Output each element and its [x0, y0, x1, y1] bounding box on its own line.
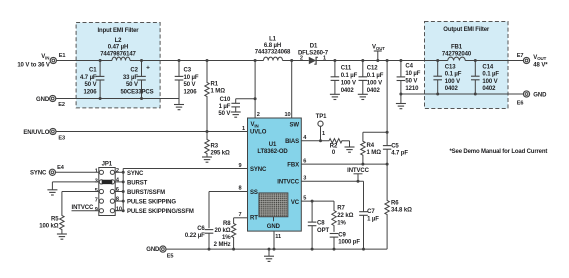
capacitor C12 [362, 61, 364, 77]
ground below C10 [231, 111, 241, 113]
svg-text:0.1 µF: 0.1 µF [341, 73, 358, 79]
node drop to bar [386, 131, 389, 134]
svg-text:+: + [146, 65, 150, 72]
capacitor C10 [236, 98, 255, 100]
wire VOUT rail [335, 60, 448, 62]
svg-text:74479876147: 74479876147 [100, 51, 136, 57]
node C8 tap [311, 200, 314, 203]
svg-text:R1: R1 [211, 82, 219, 88]
node C12 [361, 59, 364, 62]
svg-text:48 V*: 48 V* [533, 63, 548, 69]
ground below R5 [57, 233, 67, 235]
svg-text:0402: 0402 [445, 86, 459, 92]
wire EN/UVLO to pin1 [56, 131, 247, 133]
svg-text:6: 6 [116, 187, 119, 193]
wire FB1 to C14 [465, 60, 523, 62]
svg-text:C9: C9 [338, 233, 346, 239]
resistor R1 [205, 61, 209, 132]
resistor R6 [385, 164, 389, 249]
svg-text:10: 10 [284, 112, 290, 118]
svg-text:C7: C7 [367, 209, 375, 215]
svg-text:0402: 0402 [341, 88, 355, 94]
node divider drop [386, 59, 389, 62]
svg-text:50 V: 50 V [218, 111, 230, 117]
node C14 top [474, 59, 477, 62]
inductor L1 [264, 57, 283, 60]
svg-text:20 kΩ: 20 kΩ [215, 228, 231, 234]
svg-text:1206: 1206 [84, 89, 98, 95]
terminal E4 SYNC [49, 169, 55, 175]
svg-text:VC: VC [291, 200, 300, 206]
svg-text:C8: C8 [317, 221, 325, 227]
wire output gnd rail [401, 93, 523, 95]
svg-text:0.1 µF: 0.1 µF [367, 73, 384, 79]
node C1 top [99, 59, 102, 62]
svg-text:2: 2 [257, 112, 260, 118]
resistor R7 [332, 201, 336, 232]
ferrite bead FB1 [448, 57, 465, 60]
wire FBX [301, 163, 363, 165]
node TP1 BIAS [319, 139, 322, 142]
wire JP1 pin9 INTVCC stub [72, 210, 100, 212]
terminal E1 VIN [50, 57, 56, 63]
svg-text:1%: 1% [337, 221, 346, 227]
svg-text:8: 8 [116, 197, 119, 203]
svg-text:100 V: 100 V [367, 81, 382, 87]
svg-text:E3: E3 [58, 135, 65, 141]
capacitor C1 [99, 61, 101, 77]
svg-text:50 V: 50 V [405, 78, 417, 84]
svg-text:PULSE SKIPPING/SSFM: PULSE SKIPPING/SSFM [127, 209, 194, 215]
capacitor C3 [178, 59, 181, 62]
top bar R4 C5 [363, 131, 387, 133]
svg-text:RT: RT [250, 215, 258, 221]
svg-text:33 µF: 33 µF [123, 75, 138, 81]
svg-text:E5: E5 [167, 254, 174, 260]
node C6 bottom [208, 248, 211, 251]
capacitor C4 [400, 61, 402, 77]
svg-text:R3: R3 [211, 143, 219, 149]
output EMI filter box [425, 22, 509, 109]
svg-text:SYNC: SYNC [250, 167, 267, 173]
svg-text:1: 1 [242, 126, 245, 132]
svg-text:E7: E7 [517, 53, 524, 59]
resistor R4 [361, 132, 365, 164]
svg-text:SYNC: SYNC [30, 171, 47, 177]
svg-text:JP1: JP1 [102, 162, 113, 168]
svg-text:INTVCC: INTVCC [347, 168, 370, 174]
wire VIN rail [56, 60, 112, 62]
test point TP1 [318, 121, 323, 126]
wire VC [301, 200, 334, 202]
capacitor C9 [330, 233, 339, 235]
svg-text:Output EMI Filter: Output EMI Filter [443, 27, 490, 33]
wire BIAS [301, 140, 327, 142]
svg-text:100 V: 100 V [482, 79, 497, 85]
JP1 pin pair row 4 [99, 199, 103, 203]
node C2 top [140, 59, 143, 62]
svg-text:R8: R8 [223, 221, 231, 227]
svg-text:R2: R2 [330, 144, 338, 150]
svg-text:SYNC: SYNC [127, 171, 144, 177]
capacitor C14 [474, 61, 476, 77]
svg-text:1: 1 [322, 131, 325, 137]
svg-text:SS: SS [250, 190, 258, 196]
svg-text:7: 7 [95, 198, 98, 204]
svg-text:C14: C14 [482, 64, 493, 70]
wire VIN rail 2 [130, 60, 264, 62]
node R3 top [206, 130, 209, 133]
svg-text:2: 2 [300, 56, 303, 62]
svg-text:R4: R4 [367, 143, 375, 149]
svg-text:BIAS: BIAS [285, 139, 299, 145]
wire VIN pin2 [254, 61, 256, 119]
ground below C11 [330, 93, 340, 95]
svg-text:1210: 1210 [405, 86, 419, 92]
svg-text:E4: E4 [57, 165, 65, 171]
ground below C4 [400, 94, 402, 104]
svg-text:INTVCC: INTVCC [72, 205, 95, 211]
wire JP1 pin3 to gnd [52, 181, 99, 183]
svg-text:6: 6 [303, 158, 306, 164]
wire SS to C6 [209, 191, 248, 193]
svg-text:L2: L2 [115, 38, 123, 44]
svg-text:9: 9 [95, 207, 98, 213]
svg-text:C13: C13 [445, 64, 456, 70]
terminal E7 VOUT [523, 57, 529, 63]
svg-text:5: 5 [303, 196, 306, 202]
svg-text:C1: C1 [89, 68, 97, 74]
svg-text:50CE33PCS: 50CE33PCS [120, 89, 153, 95]
svg-text:TP1: TP1 [316, 114, 327, 120]
ground below C12 [358, 93, 368, 95]
wire coil to SW node [283, 60, 309, 62]
svg-text:1: 1 [323, 56, 326, 62]
svg-text:E6: E6 [517, 100, 524, 106]
svg-text:1 MΩ: 1 MΩ [367, 150, 382, 156]
svg-text:C5: C5 [391, 143, 399, 149]
svg-text:100 kΩ: 100 kΩ [39, 223, 59, 229]
wire JP1 pin5 to R5 [62, 191, 99, 193]
svg-text:E1: E1 [59, 53, 66, 59]
svg-text:50 V: 50 V [126, 82, 138, 88]
resistor R5 [60, 211, 64, 235]
svg-text:L1: L1 [269, 36, 277, 42]
JP1 bus to SYNC pin [122, 169, 124, 211]
svg-text:1 µF: 1 µF [219, 104, 231, 110]
node C9 bottom [333, 248, 336, 251]
svg-text:50 V: 50 V [184, 82, 196, 88]
node C4 [399, 59, 402, 62]
wire E4 to JP1 pin1 [56, 171, 100, 173]
ground at IC gnd [268, 248, 271, 251]
svg-text:EN/UVLO: EN/UVLO [23, 130, 49, 136]
svg-text:C4: C4 [405, 63, 413, 69]
op IC U1 LT8362-OD body [248, 118, 302, 231]
terminal E6 GND [523, 91, 529, 97]
wire bottom gnd rail [166, 248, 387, 250]
svg-text:C10: C10 [220, 97, 231, 103]
svg-text:GND: GND [36, 97, 50, 103]
svg-text:0.47 µH: 0.47 µH [108, 45, 128, 51]
node VIN pin2 drop [254, 59, 257, 62]
svg-text:VOUT: VOUT [533, 55, 546, 61]
svg-text:1000 pF: 1000 pF [338, 240, 360, 246]
connector JP1 body [99, 168, 115, 216]
svg-text:0.1 µF: 0.1 µF [445, 72, 462, 78]
node C1 bottom [99, 97, 102, 100]
terminal E3 EN/UVLO [50, 128, 56, 134]
svg-text:34.8 kΩ: 34.8 kΩ [391, 208, 412, 214]
svg-text:R5: R5 [51, 216, 59, 222]
svg-text:7: 7 [238, 212, 241, 218]
terminal E5 GND [160, 246, 166, 252]
resistor R8 [231, 222, 235, 250]
wire R2 to gnd [344, 140, 350, 142]
svg-text:BURST: BURST [127, 180, 148, 186]
svg-text:5: 5 [95, 188, 98, 194]
svg-text:INTVCC: INTVCC [277, 180, 300, 186]
ground below R3 [202, 156, 212, 158]
svg-text:1 µF: 1 µF [367, 216, 379, 222]
svg-text:0402: 0402 [367, 88, 381, 94]
capacitor C5 [386, 132, 388, 145]
wire GND rail [56, 98, 179, 100]
svg-text:3: 3 [95, 178, 98, 184]
svg-text:VIN: VIN [41, 54, 49, 60]
ground below C3 [178, 99, 180, 105]
svg-text:0402: 0402 [482, 86, 496, 92]
svg-text:2 MHz: 2 MHz [214, 242, 231, 248]
svg-text:10 V to 36 V: 10 V to 36 V [17, 62, 50, 68]
capacitor C8 OPT [311, 201, 313, 222]
resistor R3 [205, 132, 209, 158]
svg-text:C11: C11 [341, 66, 352, 72]
svg-text:9: 9 [238, 163, 241, 169]
svg-text:U1: U1 [269, 142, 277, 148]
node C7 bottom [362, 248, 365, 251]
svg-text:0.1 µF: 0.1 µF [482, 72, 499, 78]
svg-text:FBX: FBX [287, 162, 299, 168]
svg-text:1 MΩ: 1 MΩ [211, 89, 226, 95]
svg-text:100 V: 100 V [341, 81, 356, 87]
svg-text:GND: GND [146, 247, 160, 253]
capacitor C11 [334, 61, 336, 77]
ground JP1 pin3 [47, 189, 57, 191]
JP1 pin pair row 1 [99, 170, 103, 174]
svg-text:LT8362-OD: LT8362-OD [257, 149, 288, 155]
resistor R2 [328, 139, 344, 143]
svg-text:2: 2 [116, 168, 119, 174]
svg-text:1206: 1206 [184, 89, 198, 95]
bottom bar FBX node [363, 163, 387, 165]
capacitor C7 [363, 181, 365, 211]
svg-text:E2: E2 [58, 102, 65, 108]
svg-text:C3: C3 [184, 68, 192, 74]
capacitor C2 polarized [141, 61, 143, 77]
ground after R2 [345, 146, 355, 148]
diode D1 DFLS260-7 [309, 57, 316, 65]
capacitor C6 [205, 229, 214, 231]
node C2 bottom [140, 97, 143, 100]
svg-text:4.7 pF: 4.7 pF [391, 150, 408, 156]
svg-text:1: 1 [95, 169, 98, 175]
wire SW pin10 [291, 61, 293, 119]
svg-text:0.22 µF: 0.22 µF [185, 233, 205, 239]
svg-text:OPT: OPT [317, 228, 329, 234]
svg-text:4.7 µF: 4.7 µF [80, 75, 97, 81]
svg-text:11: 11 [275, 234, 281, 240]
wire divider drop [386, 61, 388, 133]
node R8 bottom [232, 248, 235, 251]
terminal E2 GND [50, 95, 56, 101]
JP1 pin pair row 2 [99, 180, 103, 184]
svg-text:742792040: 742792040 [442, 52, 472, 58]
wire INTVCC [301, 180, 363, 182]
svg-text:VOUT: VOUT [372, 45, 385, 51]
inductor L2 [112, 57, 130, 60]
wire RT to R8 [234, 217, 248, 219]
svg-text:6.8 µH: 6.8 µH [264, 43, 281, 49]
node INTVCC C7 [357, 180, 360, 183]
svg-text:Input EMI Filter: Input EMI Filter [98, 28, 140, 34]
node C13 top [436, 59, 439, 62]
svg-text:50 V: 50 V [85, 82, 97, 88]
JP1 shunt on row 2 [102, 180, 113, 184]
svg-text:SW: SW [290, 123, 300, 129]
svg-text:FB1: FB1 [451, 45, 463, 51]
svg-text:*See Demo Manual for Load Curr: *See Demo Manual for Load Current [450, 149, 548, 155]
svg-text:R7: R7 [337, 205, 345, 211]
svg-text:1%: 1% [222, 235, 231, 241]
svg-text:R6: R6 [391, 201, 399, 207]
VOUT net flag [376, 59, 379, 62]
svg-text:100 V: 100 V [445, 79, 460, 85]
svg-text:D1: D1 [310, 44, 318, 50]
svg-text:295 kΩ: 295 kΩ [211, 150, 231, 156]
node R1 top [206, 59, 209, 62]
capacitor C13 [437, 61, 439, 77]
svg-text:3: 3 [303, 176, 306, 182]
node C14 bottom [474, 93, 477, 96]
node C10 tap [254, 97, 257, 100]
svg-text:VIN: VIN [251, 122, 259, 128]
svg-text:GND: GND [267, 224, 281, 230]
svg-text:PULSE SKIPPING: PULSE SKIPPING [127, 200, 176, 206]
node C8 bottom [311, 248, 314, 251]
svg-text:10: 10 [116, 206, 122, 212]
svg-text:C2: C2 [130, 68, 138, 74]
IC gnd pin 11 [273, 231, 275, 249]
node C4 bottom / output gnd rail start [399, 93, 402, 96]
node C11 [333, 59, 336, 62]
node C13 bottom [436, 93, 439, 96]
JP1 pin pair row 5 [99, 209, 103, 213]
svg-text:BURST/SSFM: BURST/SSFM [127, 190, 165, 196]
svg-text:10 µF: 10 µF [184, 75, 199, 81]
input EMI filter box [76, 23, 160, 108]
node SW [290, 59, 293, 62]
svg-text:C12: C12 [367, 66, 378, 72]
svg-text:74437324068: 74437324068 [255, 50, 291, 56]
svg-text:UVLO: UVLO [250, 130, 267, 136]
svg-text:C6: C6 [197, 226, 205, 232]
svg-text:8: 8 [238, 186, 241, 192]
JP1 pin pair row 3 [99, 189, 103, 193]
svg-text:GND: GND [533, 93, 547, 99]
svg-text:10 µF: 10 µF [405, 71, 420, 77]
svg-text:22 kΩ: 22 kΩ [337, 213, 353, 219]
